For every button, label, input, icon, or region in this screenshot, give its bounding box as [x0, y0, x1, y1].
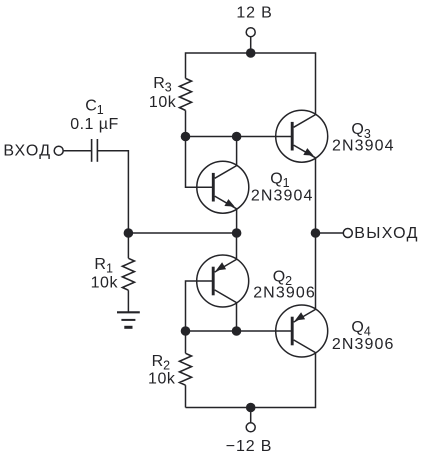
transistor Q4 2N3906: [276, 305, 328, 357]
transistor Q3 2N3904: [276, 110, 328, 162]
wire Q3 emitter down: [315, 158, 317, 233]
wire top rail: [186, 53, 316, 115]
input terminal: [54, 146, 63, 155]
wire lower-mid row: [186, 330, 292, 332]
wire mid rail: [128, 232, 236, 234]
wire Q4 emitter up: [315, 233, 317, 309]
node Q2 collector junction: [232, 326, 242, 336]
node C1/R1: [124, 228, 134, 238]
wire V+ stem: [250, 37, 252, 53]
capacitor C1: [92, 139, 98, 162]
-12V terminal: [246, 423, 255, 432]
wire output stub: [316, 232, 344, 234]
svg-text:−12 В: −12 В: [226, 438, 273, 455]
node R3 bottom: [181, 132, 191, 142]
node Q1/Q2 emitters: [232, 228, 242, 238]
wire V- stem: [250, 408, 252, 423]
svg-text:ВХОД: ВХОД: [3, 143, 51, 160]
resistor R3: [180, 78, 192, 110]
wire upper-mid row: [186, 136, 292, 138]
node R2 top: [181, 326, 191, 336]
svg-text:10k: 10k: [148, 370, 176, 387]
resistor R2: [180, 331, 192, 408]
wire Q2 base feed: [186, 281, 214, 331]
svg-text:2N3904: 2N3904: [251, 187, 314, 204]
node bottom junction: [246, 403, 256, 413]
svg-text:C1: C1: [85, 97, 104, 117]
wire input to C1: [63, 150, 91, 152]
svg-text:10k: 10k: [149, 94, 177, 111]
svg-text:ВЫХОД: ВЫХОД: [354, 225, 418, 242]
transistor Q1 2N3904: [197, 161, 249, 213]
svg-text:0.1 µF: 0.1 µF: [70, 116, 118, 133]
wire Q1 emitter down: [236, 209, 238, 233]
svg-text:R3: R3: [153, 75, 172, 95]
wire C1 to mid node: [97, 151, 128, 233]
ground: [117, 312, 140, 327]
svg-text:10k: 10k: [91, 274, 119, 291]
wire Q1 collector up: [236, 137, 238, 166]
svg-text:12 В: 12 В: [236, 5, 272, 22]
svg-text:2N3904: 2N3904: [332, 138, 395, 155]
wire Q4 collector down / bottom rail: [186, 353, 316, 408]
svg-text:2N3906: 2N3906: [332, 336, 395, 353]
wire Q2 emitter up: [236, 233, 238, 259]
node top junction: [246, 48, 256, 58]
wire Q1 base feed: [186, 137, 214, 188]
resistor R1: [122, 233, 134, 312]
wire Q2 collector down: [236, 303, 238, 331]
svg-text:R1: R1: [94, 256, 113, 276]
+12V terminal: [246, 28, 255, 37]
node output junction: [311, 228, 321, 238]
transistor Q2 2N3906: [197, 255, 249, 307]
output terminal: [343, 229, 352, 238]
svg-text:2N3906: 2N3906: [253, 285, 316, 302]
wire R3 bottom lead: [185, 110, 187, 136]
node Q1 collector junction: [232, 132, 242, 142]
